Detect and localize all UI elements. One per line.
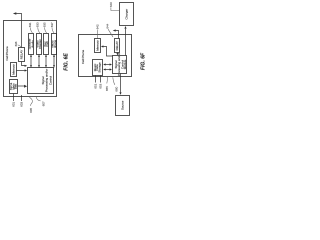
svg-text:640: 640 xyxy=(109,2,113,7)
wire: storage bus lower xyxy=(104,69,110,71)
antenna arrowhead xyxy=(13,12,16,14)
svg-text:631: 631 xyxy=(28,22,32,27)
leader 640 xyxy=(111,7,119,10)
svg-text:636: 636 xyxy=(14,41,18,46)
battery block BT1 xyxy=(10,80,18,94)
wire: antenna lead into relay xyxy=(15,14,21,48)
wire: memory to signal processor xyxy=(17,70,26,72)
wire: storage stub 651 xyxy=(95,76,97,83)
outer box: Cell Phone xyxy=(4,21,57,97)
block: Speaker xyxy=(29,34,34,55)
svg-text:651: 651 xyxy=(94,83,98,88)
svg-text:FIG. 6F: FIG. 6F xyxy=(141,52,147,70)
leader 605 xyxy=(29,97,32,106)
block: Keypad xyxy=(44,34,49,55)
wire: battery terminal stub 601 xyxy=(13,94,15,102)
svg-text:607: 607 xyxy=(42,101,46,106)
svg-text:655: 655 xyxy=(105,86,109,91)
wire: storage bus upper xyxy=(104,64,110,66)
signal processor U1 xyxy=(28,68,54,94)
svg-text:660: 660 xyxy=(115,86,119,91)
leader 637 xyxy=(52,28,54,33)
wire: charger to signal processor xyxy=(125,29,127,56)
signal processor U4 xyxy=(113,56,127,74)
svg-text:Batt: Batt xyxy=(14,84,18,89)
memory U3 xyxy=(95,39,101,53)
svg-text:633: 633 xyxy=(36,22,40,27)
outer box: Cell Phone xyxy=(79,35,132,77)
relay K2 xyxy=(115,39,120,53)
svg-text:Audio: Audio xyxy=(30,40,34,48)
wire: microphone bus xyxy=(53,55,55,68)
wire: relay to signal processor xyxy=(22,62,26,66)
wire: signal processor to source xyxy=(120,74,122,93)
svg-text:Storage: Storage xyxy=(98,62,102,73)
svg-text:642: 642 xyxy=(96,24,100,29)
leader 660 xyxy=(113,77,115,85)
svg-text:637: 637 xyxy=(50,22,54,27)
leader 655 xyxy=(106,77,109,84)
arrowhead into charger xyxy=(124,26,126,29)
svg-text:605: 605 xyxy=(29,107,33,112)
svg-text:601: 601 xyxy=(12,101,16,106)
svg-text:Control: Control xyxy=(48,75,52,85)
leader 642 xyxy=(96,30,99,38)
memory U2 xyxy=(11,63,17,77)
block: Microphone xyxy=(52,34,57,55)
wire: antenna lead into relay xyxy=(115,31,119,39)
antenna arrowhead xyxy=(113,29,116,31)
wire: terminal stub 603 xyxy=(21,95,23,101)
svg-text:Source: Source xyxy=(121,100,125,110)
svg-text:653: 653 xyxy=(99,83,103,88)
wire: storage stub 653 xyxy=(100,76,102,83)
wire: relay to signal processor xyxy=(117,53,119,55)
leader 644 xyxy=(108,29,113,37)
wire: battery to signal processor xyxy=(18,85,25,87)
leader 607 xyxy=(36,97,40,101)
source box xyxy=(116,96,130,116)
arrowhead into memory xyxy=(101,45,104,47)
svg-text:Charger: Charger xyxy=(124,9,128,20)
block: Display xyxy=(37,34,42,55)
arrowhead relay wire xyxy=(25,65,28,67)
music data storage block xyxy=(93,60,103,76)
svg-text:Pad: Pad xyxy=(45,41,49,47)
svg-text:Module: Module xyxy=(123,59,127,69)
svg-text:Memory: Memory xyxy=(95,40,99,51)
svg-text:Cell Phone: Cell Phone xyxy=(81,50,85,65)
charger box xyxy=(120,3,134,26)
wire: speaker bus xyxy=(30,55,32,68)
leader 633 xyxy=(38,28,40,33)
svg-text:603: 603 xyxy=(20,101,24,106)
svg-text:Memory: Memory xyxy=(11,64,15,75)
svg-text:Display: Display xyxy=(38,39,42,49)
svg-text:phone: phone xyxy=(53,40,57,48)
svg-text:FIG. 6E: FIG. 6E xyxy=(64,53,70,71)
leader 636 xyxy=(18,45,21,47)
leader 635 xyxy=(45,28,47,33)
svg-text:RELAY: RELAY xyxy=(19,50,23,59)
wire: signal processor to memory xyxy=(103,47,113,57)
wire: keypad bus xyxy=(45,55,47,68)
svg-text:Cell Phone: Cell Phone xyxy=(5,46,9,61)
svg-text:635: 635 xyxy=(42,22,46,27)
relay K1 xyxy=(19,48,25,62)
svg-text:RELAY: RELAY xyxy=(115,41,119,50)
svg-text:644: 644 xyxy=(106,23,110,28)
leader 631 xyxy=(30,28,32,33)
wire: display bus xyxy=(38,55,40,68)
